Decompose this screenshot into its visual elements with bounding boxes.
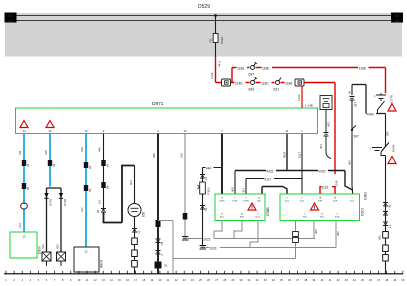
svg-text:12: 12 [183, 129, 187, 133]
wire 46 branch x352 [348, 85, 353, 96]
svg-text:83: 83 [88, 188, 92, 192]
svg-text:114E: 114E [235, 82, 243, 86]
svg-text:15/2E: 15/2E [220, 37, 224, 45]
svg-text:318: 318 [44, 150, 48, 155]
svg-text:76L: 76L [209, 38, 213, 43]
wire 518 gray x185 [180, 134, 186, 237]
svg-text:83: 83 [26, 186, 30, 190]
svg-text:390: 390 [386, 131, 390, 136]
svg-text:408: 408 [231, 187, 235, 192]
svg-text:5117: 5117 [298, 152, 302, 158]
wire 400 x352 lower [348, 134, 353, 194]
svg-text:621: 621 [274, 88, 280, 92]
svg-text:693: 693 [249, 88, 255, 92]
svg-text:D702: D702 [63, 198, 67, 206]
ground blocks x385 [378, 232, 389, 241]
G98B pin 15 [220, 214, 225, 219]
svg-text:4000: 4000 [367, 112, 374, 116]
wire 1146 stub into D971 [297, 86, 313, 108]
svg-text:72: 72 [84, 129, 88, 133]
diode D701 [44, 193, 52, 206]
ground block x158 [155, 262, 168, 269]
svg-text:4,0E: 4,0E [318, 200, 323, 202]
G901 pin 2 [300, 197, 305, 202]
module box A604 [74, 247, 104, 272]
svg-text:13: 13 [22, 235, 26, 239]
grid ruler baseline [4, 273, 403, 275]
connector P2 [295, 79, 304, 86]
label 118b [262, 65, 273, 71]
splice 397 [351, 126, 359, 139]
connector 697 [249, 62, 258, 77]
connector 62 [200, 206, 208, 212]
svg-text:63: 63 [26, 163, 30, 167]
warning triangle D971-b [46, 121, 54, 133]
connector 63 on x24 [22, 160, 30, 167]
wire 440 [98, 134, 104, 211]
warning triangle G901 [311, 203, 319, 210]
svg-text:32: 32 [137, 230, 141, 234]
wire 5117 drop x302 [298, 134, 303, 195]
svg-text:1146: 1146 [210, 72, 214, 79]
svg-text:A604: A604 [100, 260, 104, 268]
wire drop G901 pin5 [295, 221, 297, 259]
wire 2023 [206, 245, 337, 251]
svg-text:311: 311 [18, 150, 22, 155]
connector 83 on x24 [22, 183, 30, 190]
switch S2 [381, 143, 396, 156]
svg-text:G981: G981 [364, 192, 368, 200]
connector 35b x385 [383, 212, 388, 216]
relay box G901 [280, 194, 365, 221]
G901 pin 1F [333, 197, 338, 202]
splice S24 [21, 203, 28, 209]
svg-text:15: 15 [395, 18, 400, 23]
wire split tee [47, 188, 62, 252]
svg-text:35: 35 [388, 204, 392, 208]
svg-text:1 14E: 1 14E [305, 104, 313, 108]
wire L-bend to pump loop [104, 212, 123, 223]
svg-text:690: 690 [378, 235, 382, 240]
svg-text:4,0B: 4,0B [335, 217, 340, 219]
wire 311 cyan [18, 134, 24, 233]
svg-text:400: 400 [348, 160, 352, 165]
diode D702 [59, 193, 67, 206]
connector 96 [96, 209, 106, 214]
wire link y84 [352, 84, 366, 86]
G98B pin 5 [256, 214, 262, 219]
terminal block left [5, 13, 17, 24]
svg-text:401: 401 [319, 144, 323, 149]
svg-text:117: 117 [98, 199, 102, 204]
wire 4000 [366, 111, 386, 116]
ground blocks x134 [132, 238, 138, 245]
connector 63b [84, 162, 92, 169]
svg-text:318: 318 [80, 147, 84, 152]
svg-text:118d: 118d [285, 82, 292, 86]
svg-text:697: 697 [249, 73, 255, 77]
label 118a [237, 65, 248, 71]
svg-text:462: 462 [336, 231, 340, 236]
wire 483 below K1 [326, 110, 331, 133]
svg-text:118a: 118a [237, 66, 244, 70]
warning triangle D971-a [20, 121, 28, 133]
wire x326 tail [326, 136, 331, 159]
wire x385 long [385, 156, 387, 274]
svg-text:D701: D701 [49, 198, 53, 206]
svg-text:14: 14 [22, 129, 26, 133]
G98B pin 2 [233, 197, 238, 202]
svg-text:2023: 2023 [209, 247, 216, 251]
svg-text:15: 15 [8, 18, 13, 23]
svg-text:35: 35 [160, 241, 164, 245]
wire below pump [134, 217, 136, 274]
wire drop G901 pin3 [336, 221, 340, 248]
svg-text:62: 62 [204, 207, 208, 211]
G901 pin 4 [285, 197, 290, 202]
wire drop G98B pin5 [250, 221, 258, 248]
connector P1 [222, 79, 231, 86]
connector 4 on x158 [156, 251, 165, 257]
svg-text:Buca: Buca [256, 217, 262, 219]
wire from bus to fuse [215, 16, 217, 34]
connector 127 [200, 175, 208, 181]
connector 98 [101, 182, 109, 189]
fuel pump motor 650 [128, 204, 146, 218]
svg-text:98: 98 [105, 185, 109, 189]
svg-text:314: 314 [18, 223, 22, 228]
wire y258 gray [173, 258, 296, 260]
connector 32 below pump [132, 229, 141, 235]
wire fuse to band edge [215, 43, 217, 57]
terminal block right [391, 13, 403, 24]
wire 417 drop [242, 179, 247, 195]
label 118b right [358, 65, 369, 71]
G901 pin 3b [335, 214, 340, 219]
horn 412 [42, 252, 51, 266]
connector stack x295 [293, 232, 299, 243]
ground branch y220 [158, 220, 173, 222]
svg-text:1146: 1146 [297, 94, 301, 101]
fuse F1 [209, 34, 225, 45]
svg-text:118b: 118b [262, 66, 269, 70]
svg-text:5117: 5117 [264, 177, 271, 181]
svg-text:4032: 4032 [266, 169, 273, 173]
svg-text:D09r: D09r [233, 199, 238, 202]
G901 pin 1E [318, 197, 323, 202]
svg-text:69: 69 [52, 163, 56, 167]
svg-text:397: 397 [354, 135, 360, 139]
svg-text:440: 440 [98, 147, 102, 152]
svg-text:2022: 2022 [203, 238, 210, 242]
connector 93 [101, 160, 109, 167]
svg-text:483: 483 [327, 122, 331, 127]
warning triangle G98B [248, 203, 256, 210]
wire x202 chain [202, 168, 204, 246]
svg-text:D09a: D09a [219, 200, 225, 202]
connector 69 on x50 [48, 160, 56, 167]
fuse F502 [198, 182, 211, 195]
svg-text:1116: 1116 [322, 186, 329, 190]
relay block K1 [320, 96, 332, 110]
svg-text:415: 415 [56, 244, 60, 249]
svg-text:G98B: G98B [266, 207, 270, 216]
wire 604 [129, 166, 135, 204]
wire x173 gray [172, 221, 174, 274]
pump feed loop [122, 166, 135, 223]
wire F502 branch [203, 165, 223, 170]
wire riser x366 [365, 85, 367, 114]
connector 2023 head [200, 246, 207, 250]
svg-text:44-2: 44-2 [218, 61, 222, 67]
wire 1145 red vertical [335, 83, 339, 188]
svg-text:G901: G901 [361, 208, 365, 216]
wire x222 thick [221, 134, 223, 195]
wire 1116 red bridge [320, 184, 335, 194]
G901 pin 50 [350, 197, 355, 202]
wire drop G98B pin15 [214, 221, 222, 239]
wire x352 mid [351, 100, 353, 126]
svg-text:G778: G778 [390, 95, 394, 103]
connector 35a x385 [383, 203, 392, 209]
connector pair X2 [370, 147, 383, 151]
svg-text:650: 650 [142, 211, 146, 217]
svg-text:96: 96 [96, 209, 100, 213]
connector pair X1 [374, 93, 386, 99]
wire 318 cyan [44, 134, 50, 187]
connector on x185 [183, 213, 188, 220]
svg-text:412: 412 [41, 244, 45, 249]
G901 pin 5b [303, 214, 308, 219]
wire 114E lower red rail [216, 82, 336, 84]
connector 697b [350, 97, 358, 108]
bus bar 15 [14, 20, 394, 22]
svg-text:449: 449 [152, 153, 156, 158]
svg-text:F 502: F 502 [207, 187, 211, 195]
wire 5117 h2 [246, 176, 302, 181]
svg-text:518: 518 [180, 153, 184, 158]
switch S1 [377, 99, 385, 114]
svg-text:444: 444 [206, 166, 212, 170]
red branch riser [231, 68, 233, 83]
G901 pin 72 [320, 214, 325, 219]
svg-text:12: 12 [84, 250, 88, 254]
wire 2022 [188, 236, 315, 242]
horn 415 [57, 252, 66, 266]
wire 4935 drop x287 [283, 134, 288, 171]
wire 390 x385 [386, 114, 390, 146]
wire 318b cyan [80, 134, 86, 248]
connector 693 [249, 77, 258, 92]
svg-text:118b: 118b [359, 66, 366, 70]
wire drop G901 pin72 [314, 221, 318, 239]
svg-text:12: 12 [204, 176, 208, 180]
svg-text:118C: 118C [261, 82, 269, 86]
warning triangle G778 [388, 95, 396, 111]
connector 621 [274, 78, 282, 92]
connector 83b [84, 185, 92, 192]
wire 408 drop [231, 171, 236, 195]
relay box G98B [215, 194, 270, 221]
connector 35 on x158 [156, 239, 165, 245]
wire 4032/4030 h1 [235, 168, 353, 190]
svg-text:604: 604 [129, 180, 133, 185]
label 114E [235, 80, 246, 86]
label 118C [261, 80, 272, 86]
G98B pin 13 [257, 197, 262, 202]
wire 118 upper red rail [232, 67, 386, 69]
svg-text:417: 417 [242, 187, 246, 192]
red rail corner right [385, 68, 387, 94]
sensor box D900 [10, 232, 42, 258]
wire drop G98B pin1S [234, 221, 242, 239]
svg-text:63: 63 [88, 165, 92, 169]
svg-text:4,0E: 4,0E [333, 200, 338, 202]
svg-text:1a09a: 1a09a [243, 200, 250, 202]
junction on bus 30 [214, 14, 217, 17]
grid ruler ticks and numbers [5, 271, 405, 282]
power distribution band [5, 13, 402, 57]
svg-text:12: 12 [388, 224, 392, 228]
svg-text:G944: G944 [392, 144, 396, 152]
svg-text:317: 317 [80, 207, 84, 212]
wire 44-2 red drop [210, 57, 222, 83]
svg-text:13: 13 [48, 129, 52, 133]
connector 35c x385 [383, 222, 392, 228]
bus bar 30 [14, 15, 394, 17]
wire 449 thick x158 [152, 134, 158, 274]
svg-text:46: 46 [348, 90, 352, 94]
connector 62 on x326 [319, 133, 329, 150]
G98B pin 11 [219, 197, 225, 202]
svg-text:462: 462 [314, 229, 318, 234]
wire 5112 h3 [262, 187, 287, 195]
svg-text:D529: D529 [198, 4, 210, 10]
ECU box D971 [16, 101, 318, 134]
connector on x158 [156, 220, 161, 227]
svg-text:31: 31 [164, 264, 168, 268]
svg-text:D971: D971 [152, 101, 164, 107]
label 118d [285, 80, 296, 86]
svg-text:697: 697 [354, 102, 358, 107]
svg-text:93: 93 [105, 163, 109, 167]
svg-text:4935: 4935 [283, 151, 287, 158]
svg-text:4030: 4030 [318, 169, 325, 173]
svg-text:11: 11 [286, 129, 289, 133]
connector 2022 head [182, 237, 189, 241]
warning triangle G944 [388, 157, 396, 164]
G98B pin 1S [240, 214, 245, 219]
svg-text:1145: 1145 [335, 180, 339, 187]
G98B pin 3 [243, 197, 250, 202]
